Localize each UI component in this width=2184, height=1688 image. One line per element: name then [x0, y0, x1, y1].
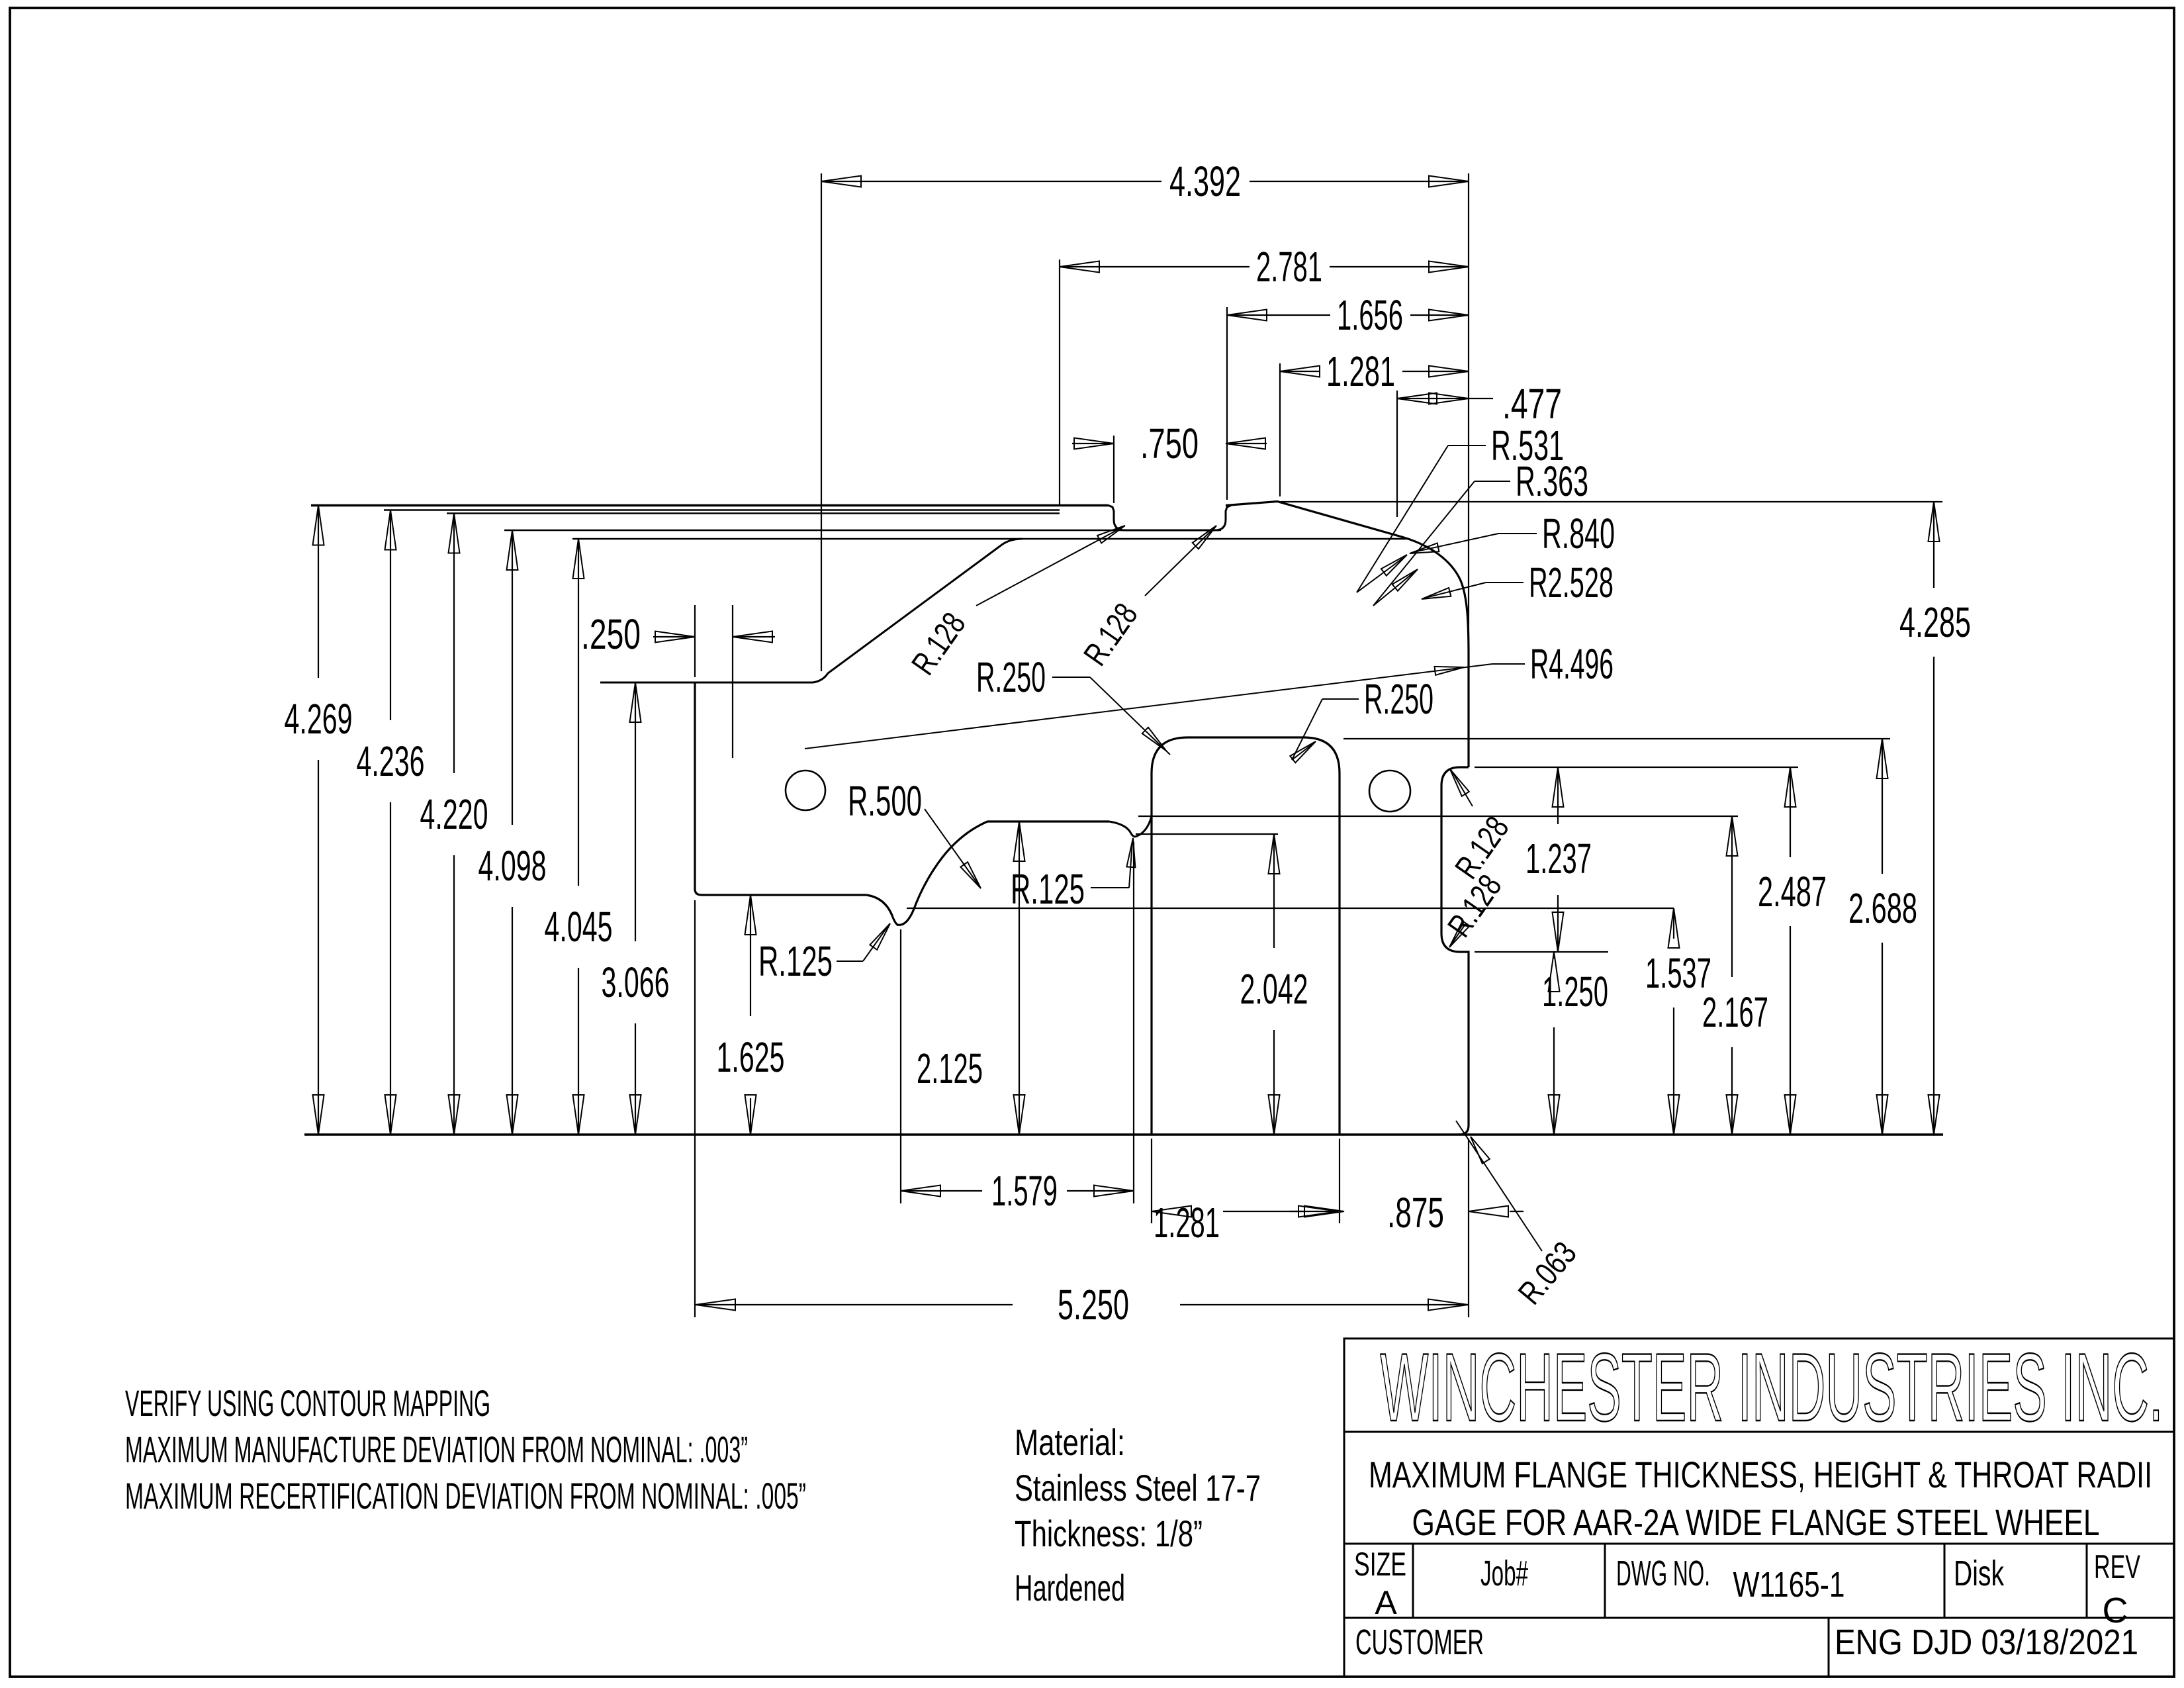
- dimension .875: [1304, 1206, 1344, 1217]
- dimension 2.487: [1790, 767, 1791, 857]
- svg-text:4.045: 4.045: [545, 903, 613, 951]
- extension x=1934 (1.281 top): [1279, 363, 1281, 496]
- extension x=1361 (1.579 left): [900, 929, 901, 1203]
- right relief notch with R.128 corners: [1441, 767, 1469, 1135]
- extension x=1050 (.250 left / 5.250): [694, 605, 696, 677]
- svg-text:SIZE: SIZE: [1354, 1546, 1406, 1583]
- part bottom edge y=1714 with dimension extensions: [304, 1133, 1943, 1135]
- dimension 1.281: [1280, 371, 1320, 372]
- dimension .750: [1072, 443, 1114, 444]
- extension y=1438 right (1.250/1.237): [1475, 951, 1608, 953]
- dimension 2.042: [1273, 834, 1275, 948]
- dimension 4.269: [318, 506, 319, 679]
- dimension .250: [653, 636, 695, 637]
- svg-text:Stainless Steel 17-7: Stainless Steel 17-7: [1015, 1467, 1261, 1509]
- svg-text:.477: .477: [1502, 380, 1562, 428]
- svg-text:4.392: 4.392: [1169, 158, 1241, 205]
- tread step line y=771: [384, 509, 1060, 511]
- bottom slot left edge x=1740 with R.250 corner: [1152, 737, 1187, 1135]
- tread recess floor line y=801: [504, 530, 1221, 532]
- svg-text:1.537: 1.537: [1645, 949, 1711, 997]
- extension x=2219 below (.875 / 5.250): [1468, 1139, 1469, 1317]
- tooling hole left: [786, 771, 825, 810]
- dimension 1.250: [1553, 952, 1555, 959]
- svg-text:R2.528: R2.528: [1529, 559, 1614, 606]
- extension x=1713 (1.579 right): [1133, 842, 1134, 1203]
- svg-text:MAXIMUM FLANGE THICKNESS, HEIG: MAXIMUM FLANGE THICKNESS, HEIGHT & THROA…: [1369, 1454, 2152, 1495]
- title block outer and rows: [1344, 1338, 2174, 1677]
- svg-text:R4.496: R4.496: [1530, 640, 1614, 688]
- extension y=1233 right (2.167): [1138, 816, 1738, 817]
- title block row4 column line: [1828, 1618, 1830, 1677]
- extension x=1683 (.750 left): [1113, 436, 1115, 503]
- R.125 cove and R.500 rise to plateau y=1241: [866, 821, 1109, 925]
- svg-text:2.042: 2.042: [1240, 965, 1308, 1013]
- extension x=1107 (.250 right): [732, 605, 733, 758]
- svg-text:Thickness: 1/8”: Thickness: 1/8”: [1015, 1513, 1203, 1554]
- svg-text:WINCHESTER INDUSTRIES INC.: WINCHESTER INDUSTRIES INC.: [1381, 1333, 2163, 1441]
- dimension 4.236: [390, 510, 391, 721]
- svg-text:3.066: 3.066: [602, 959, 670, 1006]
- svg-text:1.579: 1.579: [991, 1167, 1058, 1215]
- R.125 dip and R.128 rise into slot left edge: [1109, 816, 1152, 837]
- flange tip and right flange profile curve (R.531 R.363 R.840 R2.528 R4.496): [1226, 502, 1469, 768]
- extension x=2024 below (1.281/.875): [1339, 1139, 1340, 1223]
- left block left edge x=1050: [695, 682, 866, 895]
- extension y=1260 (2.042): [1136, 833, 1278, 835]
- svg-text:1.281: 1.281: [1154, 1199, 1220, 1246]
- svg-text:Material:: Material:: [1015, 1421, 1125, 1463]
- dimension 1.537: [1673, 908, 1674, 939]
- svg-text:4.098: 4.098: [478, 842, 547, 890]
- svg-text:2.781: 2.781: [1256, 243, 1322, 291]
- svg-text:1.281: 1.281: [1326, 348, 1395, 395]
- svg-text:R.500: R.500: [848, 777, 922, 825]
- dimension 3.066: [635, 682, 636, 941]
- svg-text:.750: .750: [1140, 420, 1199, 467]
- svg-text:2.487: 2.487: [1758, 868, 1827, 915]
- dimension 1.656: [1227, 314, 1330, 316]
- dimension 4.098: [512, 530, 513, 825]
- svg-text:R.250: R.250: [976, 653, 1046, 701]
- gage top tread surface line y=763: [311, 504, 1109, 506]
- svg-text:R.363: R.363: [1516, 457, 1588, 505]
- extension x=1740 below (1.281 bottom): [1151, 1139, 1152, 1223]
- svg-text:GAGE FOR AAR-2A WIDE FLANGE ST: GAGE FOR AAR-2A WIDE FLANGE STEEL WHEEL: [1412, 1501, 2100, 1543]
- svg-text:2.167: 2.167: [1702, 988, 1768, 1036]
- svg-text:Job#: Job#: [1480, 1554, 1528, 1593]
- svg-text:Hardened: Hardened: [1015, 1567, 1125, 1609]
- tread lower reference line y=814: [572, 538, 1408, 540]
- flange crest extension right (4.285 ref): [1281, 501, 1942, 502]
- extension x=1241 (4.392): [821, 173, 822, 671]
- svg-text:2.688: 2.688: [1848, 884, 1917, 932]
- extension y=1372 (1.537): [907, 908, 1674, 909]
- svg-text:R.125: R.125: [1011, 865, 1085, 913]
- bottom slot right R.250 corner and right edge x=2024: [1304, 737, 1340, 1135]
- dimension 1.237: [1557, 767, 1559, 824]
- dimension 2.125 (text offset left): [1019, 821, 1020, 1135]
- svg-text:DWG NO.: DWG NO.: [1616, 1554, 1710, 1593]
- svg-text:ENG DJD 03/18/2021: ENG DJD 03/18/2021: [1835, 1622, 2138, 1662]
- dimension 1.579: [901, 1190, 982, 1192]
- svg-text:2.125: 2.125: [917, 1045, 983, 1092]
- extension y=1159 right (2.487/1.237): [1475, 767, 1798, 768]
- tread step line y=775: [447, 512, 1060, 514]
- bottom slot top edge y=1114: [1187, 736, 1304, 738]
- dimension 2.781: [1060, 266, 1250, 267]
- svg-text:4.269: 4.269: [285, 695, 353, 743]
- svg-text:A: A: [1375, 1584, 1397, 1621]
- svg-text:4.285: 4.285: [1899, 598, 1971, 646]
- svg-text:R.125: R.125: [758, 937, 833, 985]
- dimension 4.392: [821, 181, 1161, 182]
- dimension 4.285: [1933, 502, 1934, 588]
- dimension 1.625: [750, 895, 751, 1016]
- svg-text:MAXIMUM RECERTIFICATION DEVIAT: MAXIMUM RECERTIFICATION DEVIATION FROM N…: [125, 1475, 806, 1517]
- extension x=2219 top dims: [1468, 173, 1469, 654]
- .750 groove walls with R.128 floor fillets: [1109, 506, 1231, 531]
- extension x=1601 (2.781): [1059, 259, 1060, 506]
- svg-text:.250: .250: [581, 610, 641, 658]
- svg-text:.875: .875: [1387, 1189, 1444, 1237]
- svg-text:CUSTOMER: CUSTOMER: [1355, 1622, 1484, 1662]
- svg-text:R.840: R.840: [1542, 510, 1615, 557]
- svg-text:Disk: Disk: [1954, 1554, 2005, 1593]
- dimension 4.045: [578, 539, 579, 886]
- svg-text:1.237: 1.237: [1525, 835, 1592, 882]
- left block top edge y=1031 with fillet into flange face: [600, 539, 1023, 682]
- svg-text:4.220: 4.220: [420, 790, 488, 838]
- svg-text:REV: REV: [2094, 1548, 2140, 1585]
- svg-text:1.625: 1.625: [717, 1033, 785, 1081]
- svg-text:1.656: 1.656: [1337, 291, 1403, 339]
- svg-text:4.236: 4.236: [357, 737, 425, 785]
- tooling hole right: [1369, 771, 1410, 812]
- svg-text:MAXIMUM MANUFACTURE DEVIATION: MAXIMUM MANUFACTURE DEVIATION FROM NOMIN…: [125, 1429, 748, 1470]
- dimension 1.281 bottom: [1223, 1211, 1334, 1212]
- svg-text:W1165-1: W1165-1: [1733, 1565, 1845, 1605]
- svg-text:5.250: 5.250: [1058, 1281, 1129, 1329]
- extension x=2111 (.477): [1396, 391, 1398, 517]
- svg-text:VERIFY USING CONTOUR MAPPING: VERIFY USING CONTOUR MAPPING: [125, 1382, 490, 1424]
- dimension 2.688: [1882, 739, 1883, 874]
- dimension 2.167: [1731, 816, 1733, 977]
- extension x=1854 (1.656): [1226, 307, 1228, 500]
- dimension 4.220: [453, 514, 455, 774]
- svg-text:1.250: 1.250: [1542, 968, 1608, 1015]
- dimension 5.250: [696, 1304, 1013, 1305]
- svg-text:R.250: R.250: [1364, 675, 1433, 723]
- title block row3 column lines: [1412, 1544, 1414, 1618]
- extension y=1116 right (2.688): [1343, 738, 1890, 739]
- dimension .477: [1397, 398, 1493, 399]
